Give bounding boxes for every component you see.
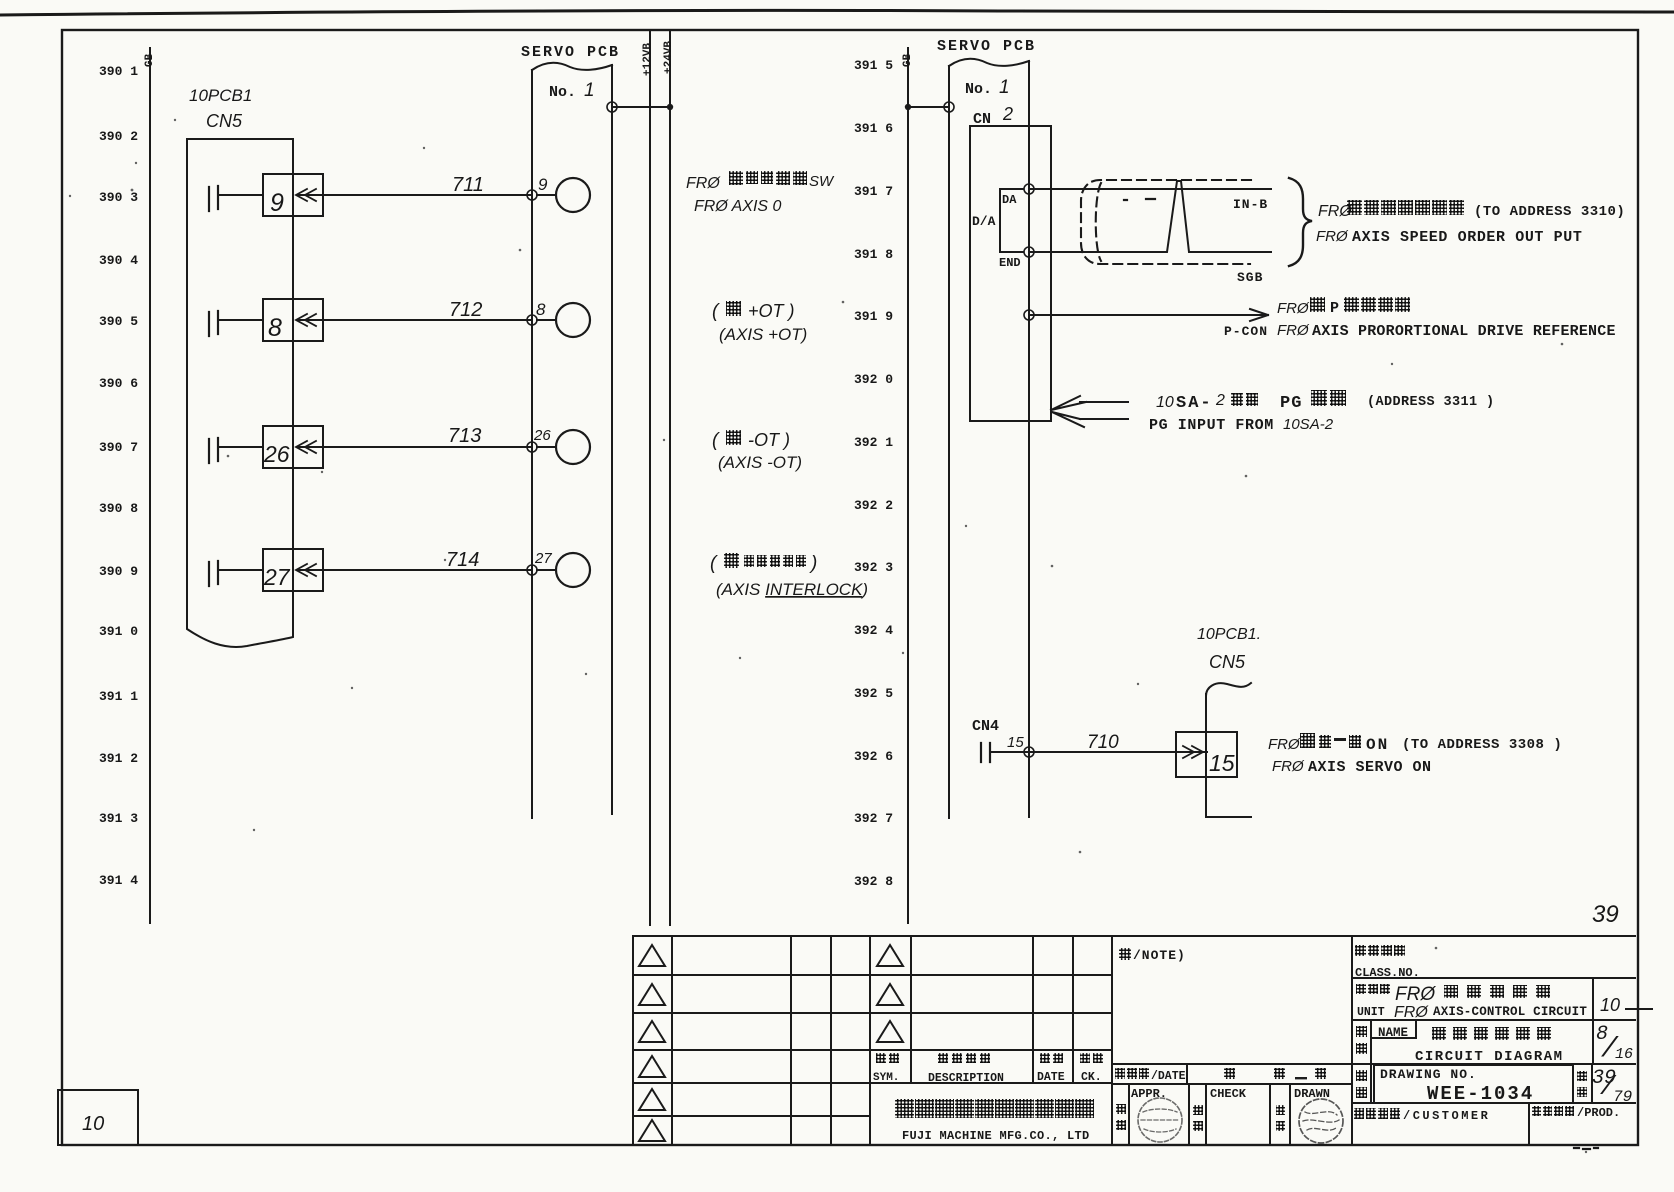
- header SYM japanese: [873, 1053, 899, 1084]
- svg-text:390 3: 390 3: [99, 190, 138, 205]
- svg-text:DRAWING NO.: DRAWING NO.: [1380, 1067, 1477, 1082]
- svg-text:APPR.: APPR.: [1131, 1087, 1167, 1101]
- svg-text:(AXIS -OT): (AXIS -OT): [718, 453, 802, 472]
- svg-text:711: 711: [452, 174, 484, 196]
- svg-text:10: 10: [82, 1113, 104, 1135]
- svg-text:713: 713: [448, 425, 481, 447]
- header DESCRIPTION japanese: [928, 1053, 1004, 1085]
- svg-text:714: 714: [446, 549, 479, 571]
- wire 711: [297, 194, 532, 196]
- node junction at servo pin 26: [527, 442, 537, 452]
- svg-text:/CUSTOMER: /CUSTOMER: [1403, 1109, 1490, 1123]
- approval stamp 2: [1299, 1099, 1343, 1143]
- svg-text:(TO ADDRESS 3310): (TO ADDRESS 3310): [1474, 204, 1625, 220]
- wire pin8 to box: [218, 319, 263, 321]
- connector 10PCB1 CN5 stub line: [1206, 683, 1251, 817]
- servo pin circle 26: [556, 430, 590, 464]
- handwritten page fraction 8/16: [1596, 1023, 1633, 1065]
- revision triangle sym 1: [877, 945, 903, 966]
- annotation (axis interlock) japanese: [710, 553, 817, 574]
- annotation PG INPUT FROM 10SA-2: [1149, 416, 1334, 434]
- annotation FR0 axis zero set SW (handwritten): [686, 171, 835, 192]
- pin contact 26: [209, 438, 218, 463]
- svg-text:392 4: 392 4: [854, 623, 893, 638]
- arrow chevrons into box 9: [296, 189, 316, 201]
- unit name row japanese FR0 axis control circuit: [1356, 984, 1550, 1005]
- revision triangle 1: [639, 945, 665, 966]
- svg-text:392 2: 392 2: [854, 498, 893, 513]
- terminal box 8: [263, 299, 323, 341]
- terminal box 9: [263, 174, 323, 216]
- svg-text:15: 15: [1209, 750, 1235, 776]
- name row japanese circuit diagram: [1356, 1026, 1564, 1065]
- svg-text:P: P: [1330, 300, 1339, 317]
- wire pin26 to box: [218, 446, 263, 448]
- connector CN2 PG input arrows: [1051, 396, 1128, 427]
- svg-text:8: 8: [536, 300, 546, 319]
- solder dot on +24VB rail: [667, 104, 673, 110]
- svg-text:CHECK: CHECK: [1210, 1087, 1247, 1101]
- svg-text:10: 10: [1600, 995, 1620, 1015]
- svg-text:ON: ON: [1366, 736, 1389, 754]
- svg-text:(ADDRESS 3311 ): (ADDRESS 3311 ): [1367, 395, 1495, 410]
- wire P-CON with arrow: [1029, 309, 1268, 321]
- wire 712: [297, 319, 532, 321]
- drawing number inner box: [1374, 1065, 1573, 1103]
- date row labels: [1115, 1068, 1326, 1083]
- svg-text:DATE: DATE: [1037, 1071, 1065, 1084]
- note label: [1119, 948, 1186, 963]
- svg-text:9: 9: [538, 175, 548, 194]
- svg-text:710: 710: [1087, 732, 1119, 753]
- svg-text:(: (: [712, 301, 720, 322]
- svg-text:392 5: 392 5: [854, 686, 893, 701]
- svg-text:9: 9: [270, 189, 284, 217]
- ground bus GB (right): [907, 48, 909, 923]
- svg-text:391 5: 391 5: [854, 58, 893, 73]
- svg-text:+12VB: +12VB: [642, 43, 654, 76]
- annotation (axis +OT) japanese: [712, 301, 795, 322]
- servo pin circle 8: [556, 303, 590, 337]
- svg-text:SGB: SGB: [1237, 270, 1263, 285]
- pin contact CN4-15 (capacitor-style pin symbol): [981, 743, 990, 762]
- svg-text:AXIS SPEED ORDER OUT PUT: AXIS SPEED ORDER OUT PUT: [1352, 229, 1582, 246]
- svg-text:AXIS-CONTROL CIRCUIT: AXIS-CONTROL CIRCUIT: [1433, 1005, 1587, 1019]
- svg-text:390 7: 390 7: [99, 440, 138, 455]
- handwritten dash after unit no: [1626, 1008, 1652, 1010]
- annotation FR0 AXIS SERVO ON: [1272, 758, 1432, 776]
- wire pin9 stub: [537, 194, 556, 196]
- svg-text:15: 15: [1007, 734, 1024, 751]
- svg-text:1: 1: [584, 80, 595, 101]
- revision triangle 4: [639, 1056, 665, 1077]
- svg-text:): ): [809, 553, 817, 574]
- svg-text:(AXIS INTERLOCK): (AXIS INTERLOCK): [716, 580, 868, 599]
- D/A converter bracket: [1000, 189, 1023, 252]
- wire pin9 to box: [218, 194, 263, 196]
- svg-text:SYM.: SYM.: [873, 1072, 899, 1084]
- arrow chevrons into box 27: [296, 564, 316, 576]
- svg-text:392 0: 392 0: [854, 372, 893, 387]
- svg-text:FRØ: FRØ: [1272, 758, 1305, 775]
- node junction on servo1 right edge: [607, 102, 617, 112]
- svg-text:SERVO PCB: SERVO PCB: [937, 38, 1036, 55]
- brace for speed order pair: [1289, 178, 1312, 266]
- node junction at servo pin 9: [527, 190, 537, 200]
- svg-text:(AXIS +OT): (AXIS +OT): [719, 325, 807, 344]
- svg-text:391 1: 391 1: [99, 689, 138, 704]
- connector 10PCB1 CN5 label (handwritten): [189, 86, 252, 131]
- annotation FR0 axis speed order output japanese (TO ADDRESS 3310): [1318, 200, 1625, 220]
- svg-text:390 4: 390 4: [99, 253, 138, 268]
- annotation (axis -OT) japanese: [712, 430, 790, 451]
- ground bus GB (left): [149, 48, 151, 923]
- svg-text:IN-B: IN-B: [1233, 197, 1268, 212]
- revision triangle sym 3: [877, 1021, 903, 1042]
- servo board U2 outline: [949, 59, 1029, 818]
- customer row labels: [1354, 1106, 1620, 1123]
- svg-text:GB: GB: [902, 53, 914, 67]
- svg-text:(TO ADDRESS 3308 ): (TO ADDRESS 3308 ): [1402, 737, 1562, 753]
- node junction END: [1024, 247, 1034, 257]
- svg-text:392 6: 392 6: [854, 749, 893, 764]
- svg-text:FRØ: FRØ: [1268, 736, 1301, 753]
- svg-text:390 8: 390 8: [99, 501, 138, 516]
- node junction at servo pin 27: [527, 565, 537, 575]
- svg-text:79: 79: [1613, 1088, 1632, 1106]
- svg-text:391 8: 391 8: [854, 247, 893, 262]
- drawing no labels: [1356, 1067, 1587, 1105]
- connector CN2 outline: [970, 126, 1051, 421]
- svg-text:FRØ: FRØ: [1277, 322, 1310, 339]
- svg-text:(: (: [710, 553, 718, 574]
- wire servo1 to +24VB rail: [612, 106, 670, 108]
- node junction at servo pin 8: [527, 315, 537, 325]
- node junction on servo2 left edge: [944, 102, 954, 112]
- node junction DA: [1024, 184, 1034, 194]
- revision triangle 2: [639, 984, 665, 1005]
- svg-text:10PCB1: 10PCB1: [189, 86, 252, 105]
- svg-text:CN4: CN4: [972, 718, 999, 735]
- pin contact 27: [209, 561, 218, 586]
- svg-text:PG INPUT FROM: PG INPUT FROM: [1149, 417, 1274, 434]
- wire 713: [297, 446, 532, 448]
- svg-text:SA-: SA-: [1176, 394, 1213, 413]
- svg-text:2: 2: [1215, 392, 1225, 409]
- svg-text:/PROD.: /PROD.: [1577, 1106, 1620, 1120]
- svg-text:26: 26: [533, 427, 551, 444]
- svg-text:390 5: 390 5: [99, 314, 138, 329]
- svg-text:390 2: 390 2: [99, 129, 138, 144]
- wire GB to servo2: [908, 106, 949, 108]
- node junction wire710 x servo edge: [1024, 747, 1034, 757]
- svg-text:392 8: 392 8: [854, 874, 893, 889]
- wire SGB return with speed pulse waveform: [1029, 181, 1271, 252]
- servo board U1 outline (left edge, wavy top, right edge): [532, 63, 612, 818]
- arrow chevrons into box 15: [1183, 746, 1203, 758]
- svg-text:PG: PG: [1280, 394, 1302, 413]
- power rail +12VB: [649, 30, 651, 925]
- svg-text:(: (: [712, 430, 720, 451]
- svg-text:No.: No.: [549, 84, 576, 101]
- arrow chevrons into box 26: [296, 441, 316, 453]
- svg-text:392 3: 392 3: [854, 560, 893, 575]
- svg-text:CK.: CK.: [1081, 1071, 1102, 1084]
- svg-text:10PCB1.: 10PCB1.: [1197, 626, 1261, 643]
- svg-text:2: 2: [1002, 104, 1013, 124]
- svg-text:+24VB: +24VB: [663, 41, 675, 74]
- pin contact 8: [209, 311, 218, 336]
- annotation FR0 axis P action order japanese: [1277, 297, 1410, 317]
- solder dot on GB bus: [905, 104, 911, 110]
- svg-text:391 0: 391 0: [99, 624, 138, 639]
- title block grid lines: [633, 935, 1635, 937]
- svg-text:CN5: CN5: [206, 111, 243, 131]
- svg-text:FRØ: FRØ: [1316, 228, 1349, 245]
- svg-text:P-CON: P-CON: [1224, 324, 1268, 339]
- wire pin27 stub: [537, 569, 556, 571]
- approval stamp 1: [1138, 1098, 1182, 1142]
- revision triangle 5: [639, 1089, 665, 1110]
- terminal box 27: [263, 549, 323, 591]
- svg-text:10: 10: [1156, 394, 1174, 411]
- svg-text:DESCRIPTION: DESCRIPTION: [928, 1072, 1004, 1085]
- svg-text:392 7: 392 7: [854, 811, 893, 826]
- svg-text:No.: No.: [965, 81, 992, 98]
- header CK japanese: [1080, 1053, 1103, 1084]
- wire pin26 stub: [537, 446, 556, 448]
- page number box bottom-left: [58, 1090, 138, 1145]
- svg-text:NAME: NAME: [1378, 1026, 1408, 1040]
- shielded cable dashed outline: [1081, 180, 1251, 264]
- power rail +24VB: [669, 30, 671, 925]
- svg-text:391 6: 391 6: [854, 121, 893, 136]
- svg-text:10SA-2: 10SA-2: [1283, 416, 1334, 433]
- svg-text:712: 712: [449, 299, 482, 321]
- svg-text:CN5: CN5: [1209, 652, 1246, 672]
- servo pin circle 9: [556, 178, 590, 212]
- svg-text:1: 1: [999, 77, 1010, 98]
- svg-text:391 2: 391 2: [99, 751, 138, 766]
- svg-text:390 6: 390 6: [99, 376, 138, 391]
- svg-text:/NOTE): /NOTE): [1133, 948, 1186, 963]
- svg-text:GB: GB: [144, 53, 156, 67]
- svg-text:SERVO PCB: SERVO PCB: [521, 44, 620, 61]
- svg-text:391 4: 391 4: [99, 873, 138, 888]
- terminal box 26: [263, 426, 323, 468]
- svg-text:27: 27: [534, 550, 552, 567]
- node junction P-CON: [1024, 310, 1034, 320]
- svg-text:DA: DA: [1002, 193, 1017, 207]
- svg-text:FRØ: FRØ: [1394, 1004, 1429, 1021]
- svg-text:390 9: 390 9: [99, 564, 138, 579]
- svg-text:FRØ AXIS 0: FRØ AXIS 0: [694, 198, 782, 215]
- header DATE japanese: [1037, 1053, 1065, 1084]
- svg-text:CIRCUIT DIAGRAM: CIRCUIT DIAGRAM: [1415, 1049, 1564, 1065]
- approver column labels: [1116, 1087, 1330, 1131]
- svg-text:FRØ: FRØ: [1395, 984, 1436, 1005]
- annotation PG input japanese (ADDRESS 3311): [1156, 390, 1495, 413]
- svg-text:27: 27: [263, 564, 291, 590]
- revision triangle 6: [639, 1120, 665, 1141]
- svg-text:391 9: 391 9: [854, 309, 893, 324]
- wire DA output: [1029, 188, 1271, 190]
- connector 10PCB1 CN5 outline: [187, 139, 293, 647]
- wire 710: [990, 751, 1207, 753]
- svg-text:26: 26: [263, 441, 290, 467]
- servo pin circle 27: [556, 553, 590, 587]
- pin contact 9 (capacitor-style pin symbol): [209, 186, 218, 211]
- svg-text:390 1: 390 1: [99, 64, 138, 79]
- svg-text:391 7: 391 7: [854, 184, 893, 199]
- wire pin8 stub: [537, 319, 556, 321]
- wire 714: [297, 569, 532, 571]
- revision triangle 3: [639, 1021, 665, 1042]
- svg-text:+OT ): +OT ): [748, 301, 795, 321]
- net label 390-1..391-4 column: [99, 64, 138, 888]
- class no labels: [1355, 945, 1420, 980]
- annotation FR0 axis servo ON japanese (TO ADDRESS 3308): [1268, 733, 1562, 754]
- svg-text:AXIS PRORORTIONAL DRIVE REFE: AXIS PRORORTIONAL DRIVE REFERENCE: [1312, 323, 1616, 340]
- svg-text:AXIS SERVO ON: AXIS SERVO ON: [1308, 759, 1432, 776]
- annotation FR0 AXIS PRORORTIONAL DRIVE REFERENCE: [1277, 322, 1616, 340]
- svg-text:392 1: 392 1: [854, 435, 893, 450]
- svg-text:SW: SW: [809, 173, 835, 190]
- svg-text:-OT ): -OT ): [748, 430, 790, 450]
- wire pin27 to box: [218, 569, 263, 571]
- net label 391-5..392-8 column: [854, 58, 893, 889]
- svg-text:D/A: D/A: [972, 214, 996, 229]
- svg-text:DRAWN: DRAWN: [1294, 1087, 1330, 1101]
- svg-text:/DATE: /DATE: [1151, 1070, 1186, 1083]
- annotation FR0 AXIS SPEED ORDER OUT PUT: [1316, 228, 1582, 246]
- svg-text:UNIT: UNIT: [1357, 1006, 1385, 1019]
- company name Fuji Machine japanese: [895, 1099, 1094, 1118]
- revision triangle sym 2: [877, 984, 903, 1005]
- svg-text:FRØ: FRØ: [686, 175, 721, 192]
- svg-text:8: 8: [268, 314, 282, 342]
- svg-text:39: 39: [1592, 901, 1619, 928]
- svg-text:FRØ: FRØ: [1277, 300, 1310, 317]
- svg-text:WEE-1034: WEE-1034: [1427, 1083, 1534, 1105]
- svg-text:391 3: 391 3: [99, 811, 138, 826]
- svg-text:FUJI MACHINE MFG.CO., LTD: FUJI MACHINE MFG.CO., LTD: [902, 1129, 1090, 1143]
- svg-text:16: 16: [1615, 1046, 1633, 1063]
- arrow chevrons into box 8: [296, 314, 316, 326]
- terminal box 15: [1176, 732, 1237, 777]
- svg-text:END: END: [999, 256, 1021, 270]
- handwritten sheet fraction 39/79: [1592, 1067, 1632, 1106]
- svg-text:CLASS.NO.: CLASS.NO.: [1355, 966, 1420, 980]
